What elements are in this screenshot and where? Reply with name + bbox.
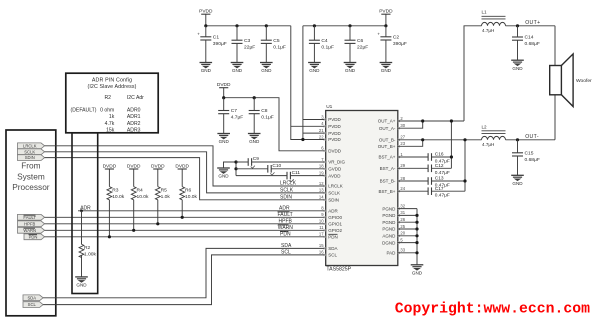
svg-text:C7: C7 <box>231 108 238 114</box>
svg-text:GND: GND <box>412 270 423 275</box>
net label SDA near U1 <box>281 243 292 249</box>
svg-text:PGND: PGND <box>382 206 396 211</box>
svg-text:PVDD: PVDD <box>328 137 341 142</box>
svg-text:SCL: SCL <box>281 250 291 256</box>
box From System Processor <box>6 130 56 316</box>
svg-text:16: 16 <box>319 250 324 255</box>
svg-text:22μF: 22μF <box>357 44 368 50</box>
svg-text:C5: C5 <box>273 38 280 44</box>
svg-text:20: 20 <box>400 231 405 236</box>
svg-text:BST_A+: BST_A+ <box>379 155 396 160</box>
net label PDN near U1 <box>280 231 291 237</box>
svg-text:+: + <box>377 32 380 37</box>
tag WARN (active low) <box>18 227 45 233</box>
svg-text:GND: GND <box>309 68 320 73</box>
resistor R4 10.0k <box>131 187 149 231</box>
svg-text:27: 27 <box>400 135 405 140</box>
svg-text:ADR: ADR <box>328 209 338 214</box>
power flag DVDD above R3 <box>103 163 117 186</box>
svg-text:17: 17 <box>319 232 324 237</box>
power flag DVDD above R5 <box>151 163 165 186</box>
node junction C7 rail <box>222 96 225 99</box>
ground below C5 <box>260 63 273 74</box>
svg-text:10.0k: 10.0k <box>137 194 150 200</box>
svg-text:GND: GND <box>76 283 87 288</box>
net label HPFB near U1 <box>279 219 293 225</box>
svg-text:SCL: SCL <box>328 253 337 258</box>
node junction OUT_A tie <box>421 119 424 122</box>
svg-text:BST_A-: BST_A- <box>380 166 396 171</box>
svg-text:1.00k: 1.00k <box>84 251 97 257</box>
svg-text:18: 18 <box>319 164 324 169</box>
node junction ground bus y229 <box>415 227 418 230</box>
svg-text:SDA: SDA <box>27 295 36 300</box>
svg-text:From: From <box>21 161 40 171</box>
net label WARN near U1 <box>278 225 293 231</box>
svg-text:C3: C3 <box>244 38 251 44</box>
svg-text:GND: GND <box>381 68 392 73</box>
svg-text:GND: GND <box>218 174 229 179</box>
wire OUT_A- pin 30 tie <box>398 121 423 128</box>
svg-text:PDN: PDN <box>328 235 338 240</box>
U1 left pin names, numbers and pin marks <box>319 114 346 257</box>
svg-text:1.0k: 1.0k <box>161 194 171 200</box>
svg-text:11: 11 <box>319 225 324 230</box>
svg-text:OUT_A+: OUT_A+ <box>378 119 396 124</box>
svg-text:C8: C8 <box>261 108 268 114</box>
wire SDA to U1 pin 15 <box>43 248 326 297</box>
svg-text:1k: 1k <box>109 114 115 120</box>
capacitor C14 0.68uF <box>512 26 540 60</box>
box ADR resistor enclosure <box>72 133 98 294</box>
svg-text:LRCLK: LRCLK <box>23 143 37 148</box>
tag PDN (active low) <box>24 234 45 240</box>
net label ADR (left) <box>80 206 91 212</box>
svg-text:C15: C15 <box>525 150 534 156</box>
svg-text:GND: GND <box>345 68 356 73</box>
tag FAULT (active low) <box>18 214 45 220</box>
svg-text:SCLK: SCLK <box>328 191 340 196</box>
wire BST_A- pin 29 stub <box>398 167 428 169</box>
net label LRCLK <box>280 181 297 187</box>
svg-text:GND: GND <box>201 68 212 73</box>
svg-text:30: 30 <box>400 123 405 128</box>
svg-text:ADR: ADR <box>279 206 290 212</box>
svg-text:0.68μF: 0.68μF <box>525 41 540 47</box>
node junction R2 on ADR <box>80 209 83 212</box>
svg-text:GND: GND <box>249 139 260 144</box>
ground below C8 <box>248 134 261 145</box>
svg-text:LRCLK: LRCLK <box>280 181 297 187</box>
net label OUT- <box>525 134 539 140</box>
node junction C10 left <box>234 167 237 170</box>
wire PDN to U1 pin 17 <box>45 236 326 238</box>
svg-text:10.0k: 10.0k <box>185 194 198 200</box>
inductor L1 4.7uH <box>482 9 506 33</box>
ground below C15 <box>511 175 524 186</box>
wire BST_A riser to OUT_A <box>450 121 452 168</box>
resistor R6 10.0k <box>180 187 198 218</box>
net label SCLK <box>280 188 294 194</box>
node OUT+ <box>516 24 519 27</box>
node junction ground bus y222.2 <box>415 221 418 224</box>
node junction C6 rail <box>348 24 351 27</box>
svg-text:HPFB: HPFB <box>279 219 293 225</box>
capacitor C3 22uF <box>232 26 256 63</box>
svg-text:R2: R2 <box>84 245 91 251</box>
net label SCL near U1 <box>281 250 291 256</box>
svg-text:TAS5825P: TAS5825P <box>326 267 351 273</box>
svg-text:PVDD: PVDD <box>328 124 341 129</box>
svg-text:ADR1: ADR1 <box>127 114 141 120</box>
svg-text:ADR3: ADR3 <box>127 127 141 133</box>
op-amp U1 TAS5825P body <box>326 104 398 272</box>
wire HPFB to U1 pin 10 (GPIO1) <box>45 223 326 225</box>
svg-text:HPFB: HPFB <box>24 221 35 226</box>
svg-text:4.7μH: 4.7μH <box>482 142 494 147</box>
svg-text:PDN: PDN <box>29 234 38 239</box>
capacitor C17 0.47uF (BST_B+) <box>428 186 465 199</box>
wire OUT_B+ pin 23 tie <box>398 140 423 147</box>
node junction C16/C12 riser <box>450 155 453 158</box>
node junction C3 rail <box>235 24 238 27</box>
svg-text:GND: GND <box>512 181 523 186</box>
svg-text:19: 19 <box>319 170 324 175</box>
svg-text:PAD: PAD <box>386 251 396 256</box>
svg-text:SDA: SDA <box>328 246 337 251</box>
node junction C2 rail <box>384 24 387 27</box>
capacitor C16 0.47uF (BST_A+) <box>428 152 451 165</box>
ground below R2 <box>75 277 88 288</box>
wire OUT- to woofer <box>554 95 556 140</box>
capacitor C11 (AVDD pin 19) <box>287 170 326 182</box>
svg-text:ADR2: ADR2 <box>127 121 141 127</box>
svg-text:FAULT: FAULT <box>23 215 36 220</box>
svg-text:0.68μF: 0.68μF <box>525 157 540 163</box>
svg-text:PVDD: PVDD <box>328 117 341 122</box>
tag SDA <box>23 295 43 301</box>
U1 right pin names, numbers and pin marks <box>378 116 406 256</box>
svg-text:25: 25 <box>400 224 405 229</box>
wire BST_B+ pin 24 stub <box>398 190 428 192</box>
svg-text:390μF: 390μF <box>393 41 407 47</box>
svg-text:10: 10 <box>319 219 324 224</box>
wire SCLK to U1 pin 13 <box>45 152 326 193</box>
node junction C8 rail <box>253 96 256 99</box>
ground below U1 thermal pad <box>411 265 424 276</box>
svg-text:0.47μF: 0.47μF <box>435 170 450 176</box>
wire left PVDD riser to U1 pins 4/22 <box>291 26 326 140</box>
svg-text:32: 32 <box>400 203 405 208</box>
svg-text:33: 33 <box>400 248 405 253</box>
svg-text:0.47μF: 0.47μF <box>435 193 450 199</box>
node junction R6 to net <box>181 216 184 219</box>
svg-text:SDIN: SDIN <box>25 155 35 160</box>
svg-text:GND: GND <box>261 68 272 73</box>
svg-text:AGND: AGND <box>382 234 396 239</box>
wire vertical tie C9-C11 left plates <box>236 162 287 176</box>
svg-text:22: 22 <box>319 134 324 139</box>
wire DVDD rail to U1 pin 6 <box>224 98 326 151</box>
svg-text:PGND: PGND <box>382 213 396 218</box>
svg-text:29: 29 <box>400 163 405 168</box>
svg-text:WARN: WARN <box>23 228 36 233</box>
power flag PVDD (right rail) <box>379 9 393 26</box>
wire SCL to U1 pin 16 <box>43 255 326 305</box>
net label FAULT near U1 <box>278 212 293 218</box>
svg-text:GND: GND <box>219 139 230 144</box>
svg-text:0.1μF: 0.1μF <box>261 115 274 121</box>
svg-text:C9: C9 <box>253 156 259 162</box>
tag SDIN <box>18 155 45 161</box>
svg-text:12: 12 <box>319 181 324 186</box>
svg-text:C13: C13 <box>435 176 444 182</box>
svg-text:C2: C2 <box>393 34 400 40</box>
svg-text:ADR PIN Config: ADR PIN Config <box>92 77 132 83</box>
wire LRCLK to U1 pin 12 <box>45 146 326 186</box>
svg-text:C17: C17 <box>435 186 444 192</box>
svg-text:10.0k: 10.0k <box>112 194 125 200</box>
svg-text:GND: GND <box>512 66 523 71</box>
svg-text:ADR0: ADR0 <box>127 108 141 114</box>
svg-text:GPIO0: GPIO0 <box>328 215 342 220</box>
svg-text:(DEFAULT): (DEFAULT) <box>71 108 97 114</box>
capacitor C1 390uF (polarized) <box>197 26 226 63</box>
svg-text:C4: C4 <box>321 38 328 44</box>
wire WARN to U1 pin 11 (GPIO2) <box>45 229 326 231</box>
wire BST_B riser to OUT_B <box>464 140 466 191</box>
svg-text:4.7μH: 4.7μH <box>482 28 494 33</box>
ground for C9/C10/C11 <box>217 162 236 179</box>
svg-text:24: 24 <box>400 186 405 191</box>
svg-text:GND: GND <box>232 68 243 73</box>
svg-text:C14: C14 <box>525 35 534 41</box>
wire PVDD right rail <box>303 25 386 27</box>
svg-text:C11: C11 <box>292 170 301 176</box>
node junction ground bus y242.6 <box>415 241 418 244</box>
wire right PVDD riser to U1 pins 3/21 <box>303 26 326 140</box>
inductor L2 4.7uH <box>482 124 506 147</box>
ground below C6 <box>344 63 357 74</box>
svg-text:SCLK: SCLK <box>24 149 35 154</box>
svg-text:C16: C16 <box>435 152 444 158</box>
svg-text:OUT+: OUT+ <box>525 20 540 26</box>
svg-text:BST_B+: BST_B+ <box>379 189 396 194</box>
resistor R3 10.0k <box>107 187 125 237</box>
svg-text:4.7k: 4.7k <box>105 121 115 127</box>
node junction R5 to net <box>156 222 159 225</box>
svg-text:PVDD: PVDD <box>328 131 341 136</box>
node junction C13/C17 riser <box>463 179 466 182</box>
svg-text:+: + <box>197 32 200 37</box>
resistor R2 1.00k <box>79 211 96 277</box>
wire BST_B- pin 28 stub <box>398 180 428 182</box>
svg-text:0.1μF: 0.1μF <box>273 44 286 50</box>
capacitor C15 0.68uF <box>512 140 540 176</box>
svg-text:SCLK: SCLK <box>280 188 294 194</box>
box ADR PIN Config table <box>66 73 158 133</box>
svg-text:PGND: PGND <box>382 227 396 232</box>
svg-text:L2: L2 <box>482 124 488 129</box>
net label OUT+ <box>525 20 540 26</box>
node junction riser on OUT_A <box>450 119 453 122</box>
capacitor C12 0.47uF (BST_A-) <box>428 163 451 176</box>
svg-text:SCL: SCL <box>28 302 37 307</box>
svg-text:BST_B-: BST_B- <box>380 179 396 184</box>
copyright watermark text <box>395 301 590 317</box>
svg-text:Woofer: Woofer <box>576 78 592 84</box>
svg-text:390μF: 390μF <box>213 41 227 47</box>
svg-text:15: 15 <box>319 243 324 248</box>
svg-text:4.7μF: 4.7μF <box>231 115 244 121</box>
svg-text:GPIO2: GPIO2 <box>328 228 342 233</box>
ground below C14 <box>511 60 524 71</box>
svg-text:System: System <box>17 171 45 181</box>
wire OUT_B- pin 27 output net <box>398 139 482 141</box>
ground below C3 <box>231 63 244 74</box>
svg-text:OUT_B+: OUT_B+ <box>378 144 396 149</box>
svg-text:OUT_B-: OUT_B- <box>379 138 396 143</box>
wire PGND/AGND/DGND bus <box>398 209 417 265</box>
svg-text:FAULT: FAULT <box>278 212 293 218</box>
net label SDIN <box>280 195 292 201</box>
tag SCL <box>23 302 43 308</box>
capacitor C10 (GVDD pin 18) <box>236 163 326 175</box>
ground below C1 <box>200 63 213 74</box>
svg-text:Copyright:www.eccn.com: Copyright:www.eccn.com <box>395 301 590 317</box>
svg-text:AVDD: AVDD <box>328 173 341 178</box>
node junction OUT_B tie <box>421 138 424 141</box>
ground below C2 <box>380 63 393 74</box>
wire L2 to OUT- node <box>506 139 556 141</box>
capacitor C9 (VR_DIG pin 7) <box>236 156 326 168</box>
resistor R5 1.0k <box>155 187 170 224</box>
wire PVDD left rail <box>206 25 291 27</box>
svg-text:28: 28 <box>400 176 405 181</box>
svg-text:(I2C Slave Address): (I2C Slave Address) <box>87 84 136 90</box>
svg-text:R2: R2 <box>104 95 111 101</box>
capacitor C4 0.1uF <box>309 26 334 63</box>
tag LRCLK <box>18 143 45 149</box>
svg-text:C1: C1 <box>213 34 220 40</box>
svg-text:LRCLK: LRCLK <box>328 184 343 189</box>
node junction riser on pin22 wire <box>301 138 304 141</box>
wire L1 to OUT+ node <box>506 25 556 27</box>
node junction ground bus y252.8 <box>415 251 418 254</box>
svg-text:13: 13 <box>319 188 324 193</box>
tag HPFB <box>18 221 45 227</box>
ground below C7 <box>217 134 230 145</box>
svg-text:WARN: WARN <box>278 225 293 231</box>
capacitor C8 0.1uF <box>249 98 274 134</box>
wire OUT_A+ pin 2 output net <box>398 26 482 121</box>
svg-text:R4: R4 <box>137 187 144 193</box>
power flag DVDD above R6 <box>175 163 189 186</box>
svg-text:0 ohm: 0 ohm <box>100 108 114 114</box>
svg-text:GVDD: GVDD <box>328 167 342 172</box>
svg-text:DGND: DGND <box>382 240 396 245</box>
capacitor C6 22uF <box>345 26 369 63</box>
svg-text:26: 26 <box>400 217 405 222</box>
wire FAULT to U1 pin 9 (GPIO0) <box>45 216 326 218</box>
net label ADR (near U1) <box>279 206 290 212</box>
node junction R4 to net <box>132 229 135 232</box>
svg-text:OUT-: OUT- <box>525 134 539 140</box>
node junction ground bus y235.8 <box>415 234 418 237</box>
svg-text:SDIN: SDIN <box>328 198 339 203</box>
svg-text:U1: U1 <box>326 104 332 110</box>
wire OUT+ to woofer <box>554 26 556 66</box>
svg-text:OUT_A-: OUT_A- <box>379 126 396 131</box>
svg-text:VR_DIG: VR_DIG <box>328 160 345 165</box>
speaker Woofer <box>550 54 592 107</box>
svg-text:PDN: PDN <box>280 232 291 238</box>
svg-text:21: 21 <box>319 128 324 133</box>
svg-text:DVDD: DVDD <box>328 149 342 154</box>
svg-text:31: 31 <box>400 210 405 215</box>
svg-text:23: 23 <box>400 141 405 146</box>
svg-text:SDIN: SDIN <box>280 195 292 201</box>
svg-text:PGND: PGND <box>382 220 396 225</box>
svg-text:14: 14 <box>319 195 324 200</box>
wire SDIN to U1 pin 14 <box>45 158 326 200</box>
svg-text:GPIO1: GPIO1 <box>328 222 342 227</box>
svg-text:C10: C10 <box>272 163 281 169</box>
node junction riser on OUT_B <box>463 138 466 141</box>
svg-text:R6: R6 <box>185 187 192 193</box>
svg-text:Processor: Processor <box>12 182 50 192</box>
svg-text:22μF: 22μF <box>244 44 255 50</box>
svg-text:L1: L1 <box>482 9 488 14</box>
capacitor C7 4.7uF <box>218 98 243 134</box>
capacitor C2 390uF (polarized) <box>377 26 406 63</box>
ground below C4 <box>308 63 321 74</box>
svg-text:R5: R5 <box>161 187 168 193</box>
power flag DVDD above R4 <box>127 163 141 186</box>
node OUT- <box>516 138 519 141</box>
node junction C5 rail <box>265 24 268 27</box>
node junction C1 rail <box>204 24 207 27</box>
power flag PVDD (left rail) <box>199 9 213 26</box>
svg-text:I2C Adr: I2C Adr <box>127 95 144 101</box>
wire ADR net to U1 pin 8 <box>78 210 326 212</box>
node junction C4 rail <box>313 24 316 27</box>
svg-text:SDA: SDA <box>281 243 292 249</box>
power flag DVDD (decoupling rail) <box>217 82 231 98</box>
node junction ground bus y215.4 <box>415 214 418 217</box>
tag SCLK <box>18 149 45 155</box>
wire BST_A+ pin 1 stub <box>398 156 428 158</box>
capacitor C5 0.1uF <box>261 26 286 63</box>
svg-text:15k: 15k <box>106 127 115 133</box>
svg-text:0.1μF: 0.1μF <box>321 44 334 50</box>
node junction R3 to net <box>108 235 111 238</box>
svg-text:R3: R3 <box>112 187 119 193</box>
svg-text:C12: C12 <box>435 163 444 169</box>
capacitor C13 0.47uF (BST_B-) <box>428 176 465 189</box>
svg-text:C6: C6 <box>357 38 364 44</box>
node junction C9 left <box>234 160 237 163</box>
